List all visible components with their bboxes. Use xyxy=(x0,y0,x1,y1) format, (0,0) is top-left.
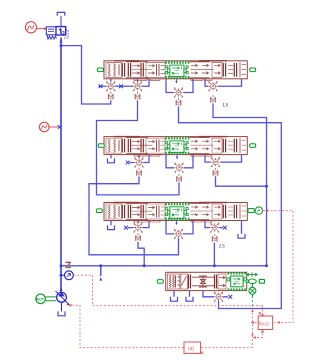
wire M2R comp elbows xyxy=(205,155,242,163)
fan motor ellipse xyxy=(249,279,257,284)
wire M1 section2 fork to M2 green fork xyxy=(97,100,180,195)
signal source S1 (red circle with wave) xyxy=(25,22,45,33)
signal: pressure sensor to f(x,y) xyxy=(74,275,263,305)
svg-text:f(x,y): f(x,y) xyxy=(259,321,269,326)
fork F22 xyxy=(176,174,182,182)
variable displacement pump P1 xyxy=(56,291,70,311)
valve manifold U4 body xyxy=(166,272,247,290)
compensator CV12 xyxy=(133,81,143,91)
compensator CV21 xyxy=(134,157,144,167)
signal: pump command long run xyxy=(201,347,252,349)
relief valve RV1 xyxy=(46,27,65,40)
signal: tach to f(x,y) right input xyxy=(263,211,293,323)
U4 green motor section xyxy=(227,273,247,289)
wire M3 green comp elbows xyxy=(166,221,193,234)
flow arrow at pump outlet xyxy=(60,287,63,291)
pressure sensor PS1 xyxy=(65,271,74,280)
fan blade sensor (circle X) xyxy=(249,284,256,297)
compensator CV13 (green section) xyxy=(174,87,184,97)
pressure gauge PG1 xyxy=(39,122,58,132)
compensator CV23 xyxy=(211,157,221,167)
wire M3 right tank stem xyxy=(241,221,243,234)
svg-text:(d): (d) xyxy=(188,346,194,352)
tank T41 xyxy=(171,297,178,301)
fan flow arrows xyxy=(247,272,258,277)
tach sensor on U3 right port xyxy=(248,207,263,214)
wire M4 tank stems xyxy=(174,291,190,297)
valve manifold U1 xyxy=(104,61,247,81)
wire M3 left tank stem xyxy=(110,221,112,226)
port U1 right xyxy=(250,68,256,72)
wire M1 comp stubs to manifold xyxy=(111,79,138,82)
compensator CV32 (green) xyxy=(174,229,184,239)
U2 green section xyxy=(165,138,189,153)
port right of fan motor xyxy=(246,279,264,283)
compensator CV33 xyxy=(210,222,220,232)
port U2 left xyxy=(98,144,104,148)
probe X M3 right xyxy=(223,226,227,230)
wire M1 left compensators probe line xyxy=(99,79,150,86)
compensator CV22 (green) xyxy=(174,163,184,173)
tank T3R xyxy=(238,234,245,238)
tank T-pump xyxy=(58,311,65,315)
wire M2L fork to M3 green compensator xyxy=(89,176,179,255)
svg-text:ROT: ROT xyxy=(36,297,45,301)
wire relief branch to section 1 supply xyxy=(61,46,111,104)
wire M2L comp stub xyxy=(138,155,140,158)
compensator CV31 xyxy=(133,222,143,232)
port U4 left xyxy=(157,280,163,284)
flow probe tap on LS line xyxy=(99,264,102,280)
fork F33 xyxy=(212,234,218,242)
tank T2 xyxy=(108,158,115,162)
svg-text:LS: LS xyxy=(222,103,229,109)
wire M1 green fork to M4 compensator (far right run) xyxy=(179,106,282,308)
fork F23 xyxy=(213,168,219,176)
relief pilot dashed line xyxy=(63,30,68,38)
probe X M2 xyxy=(126,161,130,165)
wire M3L comp stub xyxy=(137,221,139,224)
probe arrow above CV13 xyxy=(175,79,177,84)
fork F12 xyxy=(135,92,141,100)
wire pressure sensor branch xyxy=(61,274,64,276)
compensator CV41 xyxy=(214,292,224,302)
flow arrow into relief valve xyxy=(60,39,63,43)
U3 green section xyxy=(165,204,189,219)
wire M3L fork to LS line xyxy=(138,242,144,266)
signal: f(x,y) output to down line xyxy=(252,322,256,324)
probe marker at gauge tap xyxy=(58,125,62,129)
wire M3L comp probe line xyxy=(128,221,149,228)
valve manifold U3 xyxy=(104,203,247,223)
compensator CV11 xyxy=(106,81,116,91)
orifice on LS line xyxy=(65,262,71,267)
port U3 left xyxy=(96,209,102,213)
wire M3R fork to LS line xyxy=(213,243,215,266)
wire LS chain right M1R fork down and across xyxy=(213,103,267,265)
wire LS chain to M2R fork xyxy=(216,176,267,186)
tank T42 xyxy=(186,297,193,301)
prime mover ROT xyxy=(36,294,56,304)
delay block (d) xyxy=(184,331,264,354)
fork F21 xyxy=(136,168,142,176)
wire M2L comp probe line xyxy=(130,155,150,163)
fork F14 xyxy=(210,95,216,103)
wire M1 green comp elbows xyxy=(166,79,193,93)
fork F13 xyxy=(176,98,182,106)
signal: fan speed branch down xyxy=(251,305,253,348)
wire M4 compensator elbows xyxy=(203,291,228,297)
probe X markers row 1 xyxy=(99,84,103,88)
compensator CV14 xyxy=(208,81,218,91)
arrowheads on signal lines xyxy=(68,209,280,339)
wire LS horizontal to pump xyxy=(61,265,267,267)
U1 green section xyxy=(165,62,189,77)
wire M2 green comp elbows xyxy=(166,155,193,168)
svg-text:LS: LS xyxy=(218,244,225,250)
fork F11 xyxy=(108,92,114,100)
signal: f(x,y) top input drop xyxy=(262,306,264,316)
wire main pressure line P xyxy=(60,38,62,293)
tank above relief valve xyxy=(57,12,65,26)
probe X M3 left xyxy=(124,226,128,230)
wire M2 tank stem xyxy=(110,155,112,159)
wire M3R comp elbows xyxy=(205,221,223,228)
function block f(x,y) xyxy=(258,312,272,330)
port U1 left xyxy=(97,68,103,72)
probe X M4 xyxy=(228,295,232,299)
probe arrow above CV32 xyxy=(175,220,177,225)
valve manifold U2 xyxy=(104,137,247,157)
wire M1R comp elbows xyxy=(205,79,242,86)
probe arrow above CV22 xyxy=(176,154,178,159)
tank T3L xyxy=(108,225,115,229)
signal: fan sensor green dashed drop xyxy=(251,296,253,305)
fork F31 xyxy=(135,233,141,241)
port U2 right xyxy=(250,144,256,148)
